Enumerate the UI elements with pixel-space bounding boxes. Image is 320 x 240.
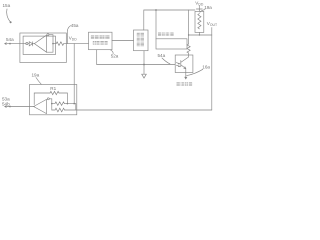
photo arrows [176,63,179,67]
leader 19a [36,78,41,85]
output stub below opto [185,73,187,79]
jog down to parallel resistor row [65,104,212,110]
net VDD label [69,36,77,42]
feedback resistor Rf [50,91,59,94]
bubble wire down [49,99,52,110]
leader 45a [67,26,70,31]
wire VDD drop to lower block [73,44,75,104]
output resistor R4 [52,102,65,106]
leader 19a (top right) [200,10,205,13]
output bubble [47,98,49,100]
lower unit box [30,85,77,115]
pull-up resistor box [195,11,204,32]
wire to rail [64,103,75,105]
output signal coupling box [156,39,187,49]
resistor R3 vertical zigzag [198,14,201,29]
leader for 15a [7,9,11,22]
wire ground rail [97,64,176,66]
wire to adapter box [64,43,89,45]
node 53a labels (bottom input) [2,97,10,107]
svg-text:16a: 16a [202,65,210,70]
output signal label (4 chars) [158,33,174,37]
wire adapter bottom pin [96,50,98,65]
feedback wire to output row [59,93,67,104]
label 19a lower block [32,73,40,78]
wire box2 bottom pin [143,51,145,65]
junction VDD drop [73,103,75,105]
right rail down [211,35,213,110]
VDD supply label top right [195,1,204,7]
wire drop from rail to R2 column [188,10,190,44]
svg-text:54a: 54a [158,53,166,58]
svg-text:19a: 19a [204,5,212,10]
wire box2 top pin to rail [144,10,195,30]
svg-text:45a: 45a [71,23,79,28]
input terminal arrow [5,43,10,45]
leader 54a (wire to opto) [162,58,170,64]
box2 text rows [137,33,144,46]
phototransistor Q1 [181,55,189,72]
box text row1 [91,35,110,39]
text texture overlay [91,33,192,86]
node 45a stub [66,31,68,44]
net Vout stub and label [211,28,213,35]
wire input to box1 [11,43,26,45]
pin circle [26,43,28,45]
inner box around op-amp U1 [23,36,55,54]
output bubble [47,34,49,36]
VDD stub and bar [196,6,202,12]
bubble wire down and feedback [47,35,54,53]
output signal label bottom (4 chars) [177,82,193,86]
resistor R2 [187,44,190,55]
svg-text:OUT: OUT [210,23,217,27]
node Vout wire [189,34,212,36]
ground stem [143,65,145,75]
op-amp U1 (left-pointing) [34,35,46,52]
svg-text:19a: 19a [32,73,40,78]
junction [143,64,145,66]
svg-text:DD: DD [72,38,77,42]
wire below resistor [198,32,200,35]
box text row2 [93,41,108,45]
signal input unit box [134,30,149,51]
wire bottom input [11,106,35,108]
svg-text:15a: 15a [3,3,11,8]
svg-text:52a: 52a [111,53,119,58]
input terminal arrow (bottom) [5,106,10,108]
leader 52a [111,50,114,54]
svg-text:54a: 54a [6,37,14,42]
ground symbol [142,74,147,78]
junction [52,43,54,45]
diode D1 [29,42,33,46]
wire [33,43,35,45]
resistor Rf label [50,86,56,91]
junction at bubble drop [51,103,53,105]
output wire [53,43,56,45]
junction feedback [67,103,69,105]
feedback loop wire with resistor Rf [34,93,50,105]
wire adapter to input unit [112,40,134,42]
resistor R1 [56,42,64,46]
svg-text:R1: R1 [50,86,56,91]
node 54a label (top input) [6,37,14,42]
node 15a label [3,3,11,8]
wire drop from rail to output-signal box [155,10,157,39]
optocoupler box [175,55,193,73]
op-amp U2 (left-pointing) [34,99,47,113]
emitter arrowhead [184,67,186,69]
unit box (outer) of block 15a [20,33,66,63]
wire [28,43,29,45]
parallel resistor R5 [52,108,65,112]
adaptive voltage converter box [89,32,113,50]
leader 16a [187,69,203,75]
